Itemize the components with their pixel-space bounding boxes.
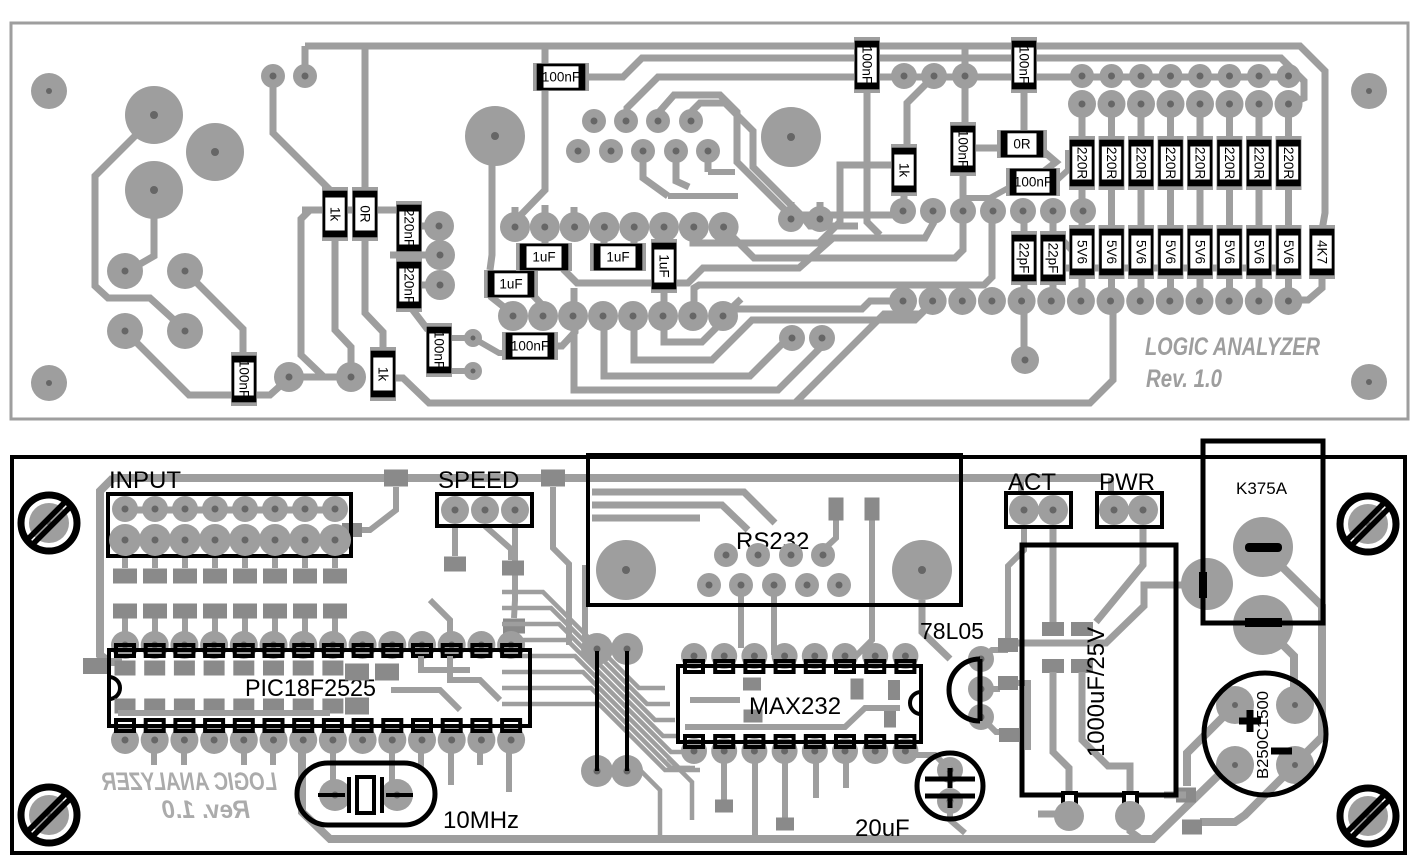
- node: right header row1: [1129, 64, 1153, 88]
- node: row D pad: [558, 301, 588, 331]
- pad: 78l05 smd col: [998, 638, 1018, 652]
- node: k375a pad 2: [1233, 517, 1293, 577]
- node: pic pin 5 top: [230, 631, 258, 659]
- wire: header column 7: [1256, 104, 1263, 301]
- pad: smd row2 col6: [263, 604, 287, 619]
- node: cap pad 1: [1054, 801, 1084, 831]
- pad: max inner smd: [743, 678, 761, 691]
- node: big pad 1: [125, 86, 183, 144]
- svg-text:5V6: 5V6: [1193, 240, 1208, 264]
- node: right header row2: [1068, 90, 1096, 118]
- node: pads y219: [778, 206, 804, 232]
- node: max pin bottom 7: [862, 738, 888, 764]
- pin: pic bottom pin box 7: [294, 720, 312, 731]
- node: 20uF pads: [937, 757, 963, 783]
- wire: cap inner v2: [1053, 672, 1069, 795]
- pin: pic top pin box 2: [146, 645, 164, 656]
- node: row 211 pad: [1010, 198, 1036, 224]
- pad: pic inner smd bottom: [293, 699, 314, 714]
- node: row 211 pad: [980, 198, 1006, 224]
- node: pic pin 3 top: [170, 631, 198, 659]
- pad: rs232 smd 2: [865, 498, 880, 521]
- node: pwr pin 2: [1128, 495, 1158, 525]
- pad: smd row2 col2: [143, 604, 167, 619]
- capacitor C11 1uF: [516, 243, 572, 271]
- wire: 1uF a left-down: [490, 296, 514, 315]
- wire: 78l05 link 1: [981, 650, 1008, 659]
- wire: speed stub 1: [452, 526, 458, 556]
- node: input pin 11: [169, 524, 201, 556]
- node: right header row1: [1159, 64, 1183, 88]
- node: via A: [261, 64, 285, 88]
- node: big pad 4: [465, 106, 525, 166]
- node: input pin 14: [259, 524, 291, 556]
- node: right header row1: [1218, 64, 1242, 88]
- node: row 301 pad: [978, 287, 1006, 315]
- node: pic pin 6 top: [260, 631, 288, 659]
- connector J2 SPEED: [437, 494, 532, 526]
- node: cluster A pad: [679, 109, 703, 133]
- svg-text:INPUT: INPUT: [109, 467, 181, 494]
- node: row C pad: [709, 212, 739, 242]
- svg-text:5V6: 5V6: [1075, 240, 1090, 264]
- wire: 1k mid top feed: [907, 76, 934, 150]
- wire: smd col link: [1008, 683, 1028, 750]
- wire: stair A2: [867, 92, 880, 235]
- node: db9 pin top: [714, 543, 738, 567]
- wire: 220n link: [406, 248, 413, 265]
- pin: pic top pin box 11: [413, 645, 431, 656]
- node: via row1: [921, 63, 947, 89]
- wire: 100nF H left diag: [965, 186, 1012, 198]
- capacitor C1 100nF: [533, 63, 589, 91]
- node: row 301 pad: [948, 287, 976, 315]
- node: act pin 2: [1038, 495, 1068, 525]
- pad: pic inner smd top: [263, 661, 284, 676]
- wire: header column 2: [1108, 104, 1115, 301]
- pin: max bottom pin box 5: [806, 736, 824, 747]
- node: cluster B pad: [599, 139, 623, 163]
- node: cluster A pad: [646, 109, 670, 133]
- node: row 211 pad: [920, 198, 946, 224]
- pin: pic top pin box 12: [443, 645, 461, 656]
- svg-text:Rev. 1.0: Rev. 1.0: [1146, 365, 1222, 393]
- wire: zener row bus: [1066, 265, 1290, 272]
- svg-text:220R: 220R: [1222, 147, 1237, 180]
- pad: smd row1 col1: [113, 569, 137, 584]
- wire: pads219 stubs: [791, 202, 820, 219]
- node: row C pad: [530, 212, 560, 242]
- node: db9 pin bottom: [795, 573, 819, 597]
- node: pic pin 11 bottom: [408, 726, 436, 754]
- mounting pad bottom-right: [1351, 364, 1387, 400]
- label: minus: [1271, 748, 1292, 755]
- wire: center fan 7: [502, 688, 695, 768]
- wire: 20uF links: [910, 755, 965, 833]
- wire: input column 5: [242, 540, 248, 645]
- wire: mid vertical: [553, 487, 569, 645]
- wire: rs232 inner 3: [592, 515, 700, 522]
- pad: smd row2 col4: [203, 604, 227, 619]
- wire: row D stub diag: [723, 299, 741, 316]
- svg-text:K375A: K375A: [1236, 479, 1288, 498]
- pin: pic bottom pin box 1: [116, 720, 134, 731]
- node: row 211 pad: [1040, 198, 1066, 224]
- wire: db9 stubs: [741, 585, 774, 655]
- wire: 0R feed from cap: [1021, 88, 1028, 133]
- pad: bus jumper 2: [541, 470, 565, 487]
- node: max pin bottom 5: [802, 738, 828, 764]
- svg-text:100nF: 100nF: [1017, 46, 1032, 84]
- node: max pin top 8: [892, 643, 918, 669]
- resistor R13 220R: [1276, 136, 1302, 190]
- node: cluster B pad: [664, 139, 688, 163]
- node: pads bottom left: [274, 362, 304, 392]
- capacitor C5 100nF: [1006, 168, 1060, 196]
- svg-text:5V6: 5V6: [1104, 240, 1119, 264]
- node: db9 pin bottom: [697, 573, 721, 597]
- node: pic pin 4 top: [200, 631, 228, 659]
- svg-text:MAX232: MAX232: [749, 693, 841, 720]
- wire: row1 bus through right header: [627, 77, 1289, 121]
- node: input pin 8: [322, 496, 348, 522]
- connector J4 ACT: [1006, 493, 1071, 527]
- pin: pic bottom pin box 2: [146, 720, 164, 731]
- pin: pic top pin box 7: [294, 645, 312, 656]
- node: big pad 5: [761, 107, 821, 167]
- pad: smd row2 col5: [233, 604, 257, 619]
- pin: pic top pin box 1: [116, 645, 134, 656]
- pad: smd row2 col7: [293, 604, 317, 619]
- wire: input column 6: [272, 540, 278, 645]
- pad: smd row1 col6: [263, 569, 287, 584]
- node: speed pin: [471, 496, 499, 524]
- svg-text:SPEED: SPEED: [438, 467, 519, 494]
- svg-text:22pF: 22pF: [1017, 243, 1032, 274]
- node: pic pin 6 bottom: [260, 726, 288, 754]
- pin: pic top pin box 14: [502, 645, 520, 656]
- pad: corner smd: [83, 658, 107, 674]
- pad: smd mid: [342, 523, 362, 537]
- wire: cap pin links: [1038, 814, 1141, 839]
- svg-text:1uF: 1uF: [657, 254, 672, 277]
- capacitor C6 220nF: [396, 201, 422, 255]
- svg-text:100nF: 100nF: [542, 70, 580, 85]
- node: pads left mid: [107, 253, 143, 289]
- node: max pin top 6: [832, 643, 858, 669]
- resistor R11 220R: [1217, 136, 1243, 190]
- svg-text:0R: 0R: [358, 205, 373, 223]
- pin: max bottom pin box 4: [776, 736, 794, 747]
- pin: max top pin box 3: [745, 661, 763, 672]
- connector J5 PWR: [1097, 493, 1162, 527]
- wire: top bus bottom board: [113, 474, 1103, 482]
- node: max pin bottom 8: [892, 738, 918, 764]
- wire: input column 8: [332, 540, 338, 645]
- wire: header column 4: [1167, 104, 1174, 301]
- pad: speed smd 2: [502, 561, 524, 576]
- pad: smd row1 col4: [203, 569, 227, 584]
- svg-text:220R: 220R: [1104, 147, 1119, 180]
- wire: input column 4: [212, 540, 218, 645]
- node: row 301 pad: [1215, 287, 1243, 315]
- wire: fan tails: [640, 758, 692, 838]
- node: input pin 12: [199, 524, 231, 556]
- pin: max top pin box 8: [896, 661, 914, 672]
- pad: bridge smd 1: [1176, 788, 1196, 803]
- wire: 1uF a right: [531, 293, 545, 316]
- wire: right big pad drop: [922, 600, 950, 659]
- node: pic pin 5 bottom: [230, 726, 258, 754]
- node: row 301 pad: [1186, 287, 1214, 315]
- wire: cap 100nF drop: [514, 46, 545, 222]
- node: pic pin 9 bottom: [349, 726, 377, 754]
- wire: center fan 6: [502, 672, 690, 768]
- wire: top supply bus: [305, 46, 1325, 230]
- screw hole top-left: [21, 495, 77, 551]
- wire: header column 3: [1138, 104, 1145, 301]
- node: row C pad: [619, 212, 649, 242]
- node: pic pin 3 bottom: [170, 726, 198, 754]
- svg-text:1k: 1k: [376, 367, 391, 382]
- wire: max inner: [685, 700, 900, 727]
- resistor R1 1k: [891, 144, 917, 196]
- pad: smd row2 col8: [323, 604, 347, 619]
- pad: speed smd 3: [503, 619, 525, 634]
- wire: long bottom bus: [394, 305, 1113, 403]
- pin: max bottom pin box 2: [715, 736, 733, 747]
- wire: stair I: [574, 316, 822, 390]
- screw hole top-right: [1340, 496, 1396, 552]
- wire: 0R down to 1k: [365, 236, 383, 354]
- node: row C pad: [679, 212, 709, 242]
- wire: 1uF V vertical: [661, 288, 668, 315]
- pad: smd below max: [715, 800, 733, 813]
- wire: pic top row circles feed: [430, 600, 450, 640]
- bottom board: component placement view: [12, 441, 1405, 853]
- pad: bridge smd 2: [1182, 820, 1202, 835]
- pin: pic top pin box 9: [354, 645, 372, 656]
- capacitor C14 100nF: [502, 332, 558, 360]
- resistor R5 1k: [370, 347, 396, 401]
- wire: 220n to 100n: [409, 305, 428, 330]
- resistor R8 220R: [1128, 136, 1154, 190]
- wire: 100nF e right: [553, 316, 575, 346]
- svg-text:LOGIC ANALYZER: LOGIC ANALYZER: [102, 768, 277, 796]
- pad: pic inner smd bottom: [263, 699, 284, 714]
- pin: pic top pin box 10: [383, 645, 401, 656]
- pin: max bottom pin box 8: [896, 736, 914, 747]
- node: k375a pad 3: [1233, 595, 1293, 655]
- top board: copper layer view: [11, 23, 1408, 419]
- wire: k375a trace 1: [1272, 557, 1322, 764]
- svg-text:20uF: 20uF: [855, 815, 910, 842]
- svg-text:1k: 1k: [328, 207, 343, 222]
- node: cluster B pad: [631, 139, 655, 163]
- node: db9 pin top: [746, 543, 770, 567]
- wire: center fan 4: [502, 640, 680, 736]
- wire: cap inner h: [1000, 585, 1185, 643]
- node: pic pin 10 top: [378, 631, 406, 659]
- pin: pic bottom pin box 5: [235, 720, 253, 731]
- capacitor C16 22pF: [1040, 231, 1066, 285]
- wire: input row1 bus: [125, 507, 335, 514]
- capacitor C12 1uF: [590, 243, 646, 271]
- wire: 100nF mid bottom: [960, 171, 967, 211]
- node: input pin 13: [229, 524, 261, 556]
- pin: max bottom pin box 7: [866, 736, 884, 747]
- wire: left vertical bus: [100, 478, 122, 662]
- node: big pad 3: [125, 161, 183, 219]
- resistor R2 0R: [997, 130, 1047, 158]
- pad: bus jumper 1: [384, 470, 408, 487]
- board outline (bottom board): [12, 457, 1405, 853]
- pin: pic bottom pin box 6: [265, 720, 283, 731]
- pin: pic bottom pin box 13: [472, 720, 490, 731]
- wire: 0R left link: [975, 145, 1002, 152]
- wire: 100nF side stubs: [450, 338, 467, 371]
- wire: center fan 8: [502, 704, 700, 770]
- wire: crystal stub 1: [330, 745, 336, 785]
- wire: rs232 sq stub: [820, 520, 836, 553]
- pad: smd row1 col2: [143, 569, 167, 584]
- capacitor C4 100nF: [950, 122, 976, 176]
- pad: pic inner smd bottom: [233, 699, 254, 714]
- node: right header row2: [1127, 90, 1155, 118]
- wire: pic inner L1: [391, 656, 500, 710]
- wire: bus to 0R: [362, 46, 369, 195]
- svg-text:10MHz: 10MHz: [443, 807, 519, 834]
- node: max pin bottom 3: [741, 738, 767, 764]
- node: pic pin 1 bottom: [111, 726, 139, 754]
- node: pic pin 14 top: [497, 631, 525, 659]
- svg-text:5V6: 5V6: [1222, 240, 1237, 264]
- IC U1 PIC18F2525 body: [109, 631, 530, 754]
- resistor R7 220R: [1099, 136, 1125, 190]
- pad: pic inner smd bottom: [174, 699, 195, 714]
- wire: center fan 5: [502, 656, 685, 752]
- wire: mid pad feed: [390, 252, 438, 259]
- node: pwr pin 1: [1099, 495, 1129, 525]
- pin: pic top pin box 5: [235, 645, 253, 656]
- node: pic pin 13 bottom: [467, 726, 495, 754]
- node: right header row2: [1216, 90, 1244, 118]
- wire: B row horizontals: [668, 172, 738, 196]
- node: row 211 pad: [950, 198, 976, 224]
- node: input pin 2: [142, 496, 168, 522]
- node: row D pad: [588, 301, 618, 331]
- wire: 220n stub B: [418, 282, 439, 289]
- node: pic pin 12 top: [438, 631, 466, 659]
- wire: max232 bottom stubs: [724, 758, 846, 838]
- wire: 1k mid bottom: [901, 190, 908, 211]
- wire: 100nF mid top feed: [962, 47, 969, 127]
- wire: input column 3: [182, 540, 188, 645]
- node: right header row2: [1157, 90, 1185, 118]
- node: input pin 7: [292, 496, 318, 522]
- svg-text:220R: 220R: [1163, 147, 1178, 180]
- pin: pic bottom pin box 3: [175, 720, 193, 731]
- pad: pic inner smd top: [233, 661, 254, 676]
- node: pic pin 2 top: [141, 631, 169, 659]
- svg-text:100nF: 100nF: [237, 360, 252, 398]
- resistor R3 1k: [322, 187, 348, 241]
- capacitor C7 220nF: [396, 258, 422, 312]
- wire: bus branch diag: [795, 303, 933, 403]
- pin: max top pin box 1: [685, 661, 703, 672]
- diode D2 5V6: [1099, 225, 1125, 279]
- svg-text:100nF: 100nF: [956, 130, 971, 168]
- node: speed pin: [441, 496, 469, 524]
- node: db9 pin top: [779, 543, 803, 567]
- node: 78l05 pads: [968, 646, 994, 672]
- pin: pic bottom pin box 10: [383, 720, 401, 731]
- wire: down to pad: [301, 210, 324, 377]
- node: pic pin 11 top: [408, 631, 436, 659]
- wire: 100nF zigzag: [473, 338, 510, 353]
- wire: pic bottom stubs: [154, 745, 509, 792]
- node: max pin top 1: [681, 643, 707, 669]
- wire: 100nF H right: [1055, 150, 1068, 182]
- wire: ring 2: [693, 103, 858, 226]
- pin: pic top pin box 4: [205, 645, 223, 656]
- pad: pic inner large: [345, 664, 369, 681]
- node: speed pin: [501, 496, 529, 524]
- wire: horizontal through 1k/0R: [302, 207, 400, 214]
- node: pic pin 12 bottom: [438, 726, 466, 754]
- node: pic pin 1 top: [111, 631, 139, 659]
- pad: smd row1 col3: [173, 569, 197, 584]
- node: input pin 4: [202, 496, 228, 522]
- wire: via to R 1k: [273, 76, 335, 195]
- wire: stair F: [664, 301, 904, 342]
- node: db9 pin bottom: [827, 573, 851, 597]
- pin: max top pin box 7: [866, 661, 884, 672]
- label: plus: [1239, 718, 1261, 725]
- wire: header column 5: [1197, 104, 1204, 301]
- node: pads 100n right: [464, 329, 482, 347]
- node: input pin 1: [112, 496, 138, 522]
- wire: ring 1: [660, 95, 903, 215]
- resistor R4 0R: [352, 187, 378, 241]
- bridge rectifier B1 B250C1500: [1204, 673, 1326, 795]
- node: right header row2: [1186, 90, 1214, 118]
- wire: mid vertical 2: [582, 565, 588, 640]
- wire: row D stub up 2: [571, 288, 578, 316]
- wire: 78l05 link 3: [981, 717, 1009, 732]
- wire: rs232 inner 1: [592, 492, 775, 523]
- svg-text:100nF: 100nF: [1014, 175, 1052, 190]
- wire: stair H: [604, 316, 790, 376]
- capacitor C9 100nF: [231, 352, 257, 406]
- svg-text:5V6: 5V6: [1281, 240, 1296, 264]
- wire: rs232 inner 2: [592, 505, 748, 530]
- pad: cap smd: [1042, 622, 1064, 636]
- connector J1 INPUT: [108, 494, 351, 556]
- pad: smd row1 col8: [323, 569, 347, 584]
- wire: 1uF b feed: [542, 227, 549, 247]
- pin: pic bottom pin box 9: [354, 720, 372, 731]
- wire: crystal feed left: [302, 745, 1228, 839]
- wire: stair B: [723, 216, 963, 258]
- node: row C pad: [500, 212, 530, 242]
- wire: left pad net 2: [128, 191, 154, 271]
- svg-text:220R: 220R: [1252, 147, 1267, 180]
- svg-text:220R: 220R: [1075, 147, 1090, 180]
- crystal X1 10MHz: [297, 763, 435, 825]
- pin: pic bottom pin box 4: [205, 720, 223, 731]
- resistor R10 220R: [1187, 136, 1213, 190]
